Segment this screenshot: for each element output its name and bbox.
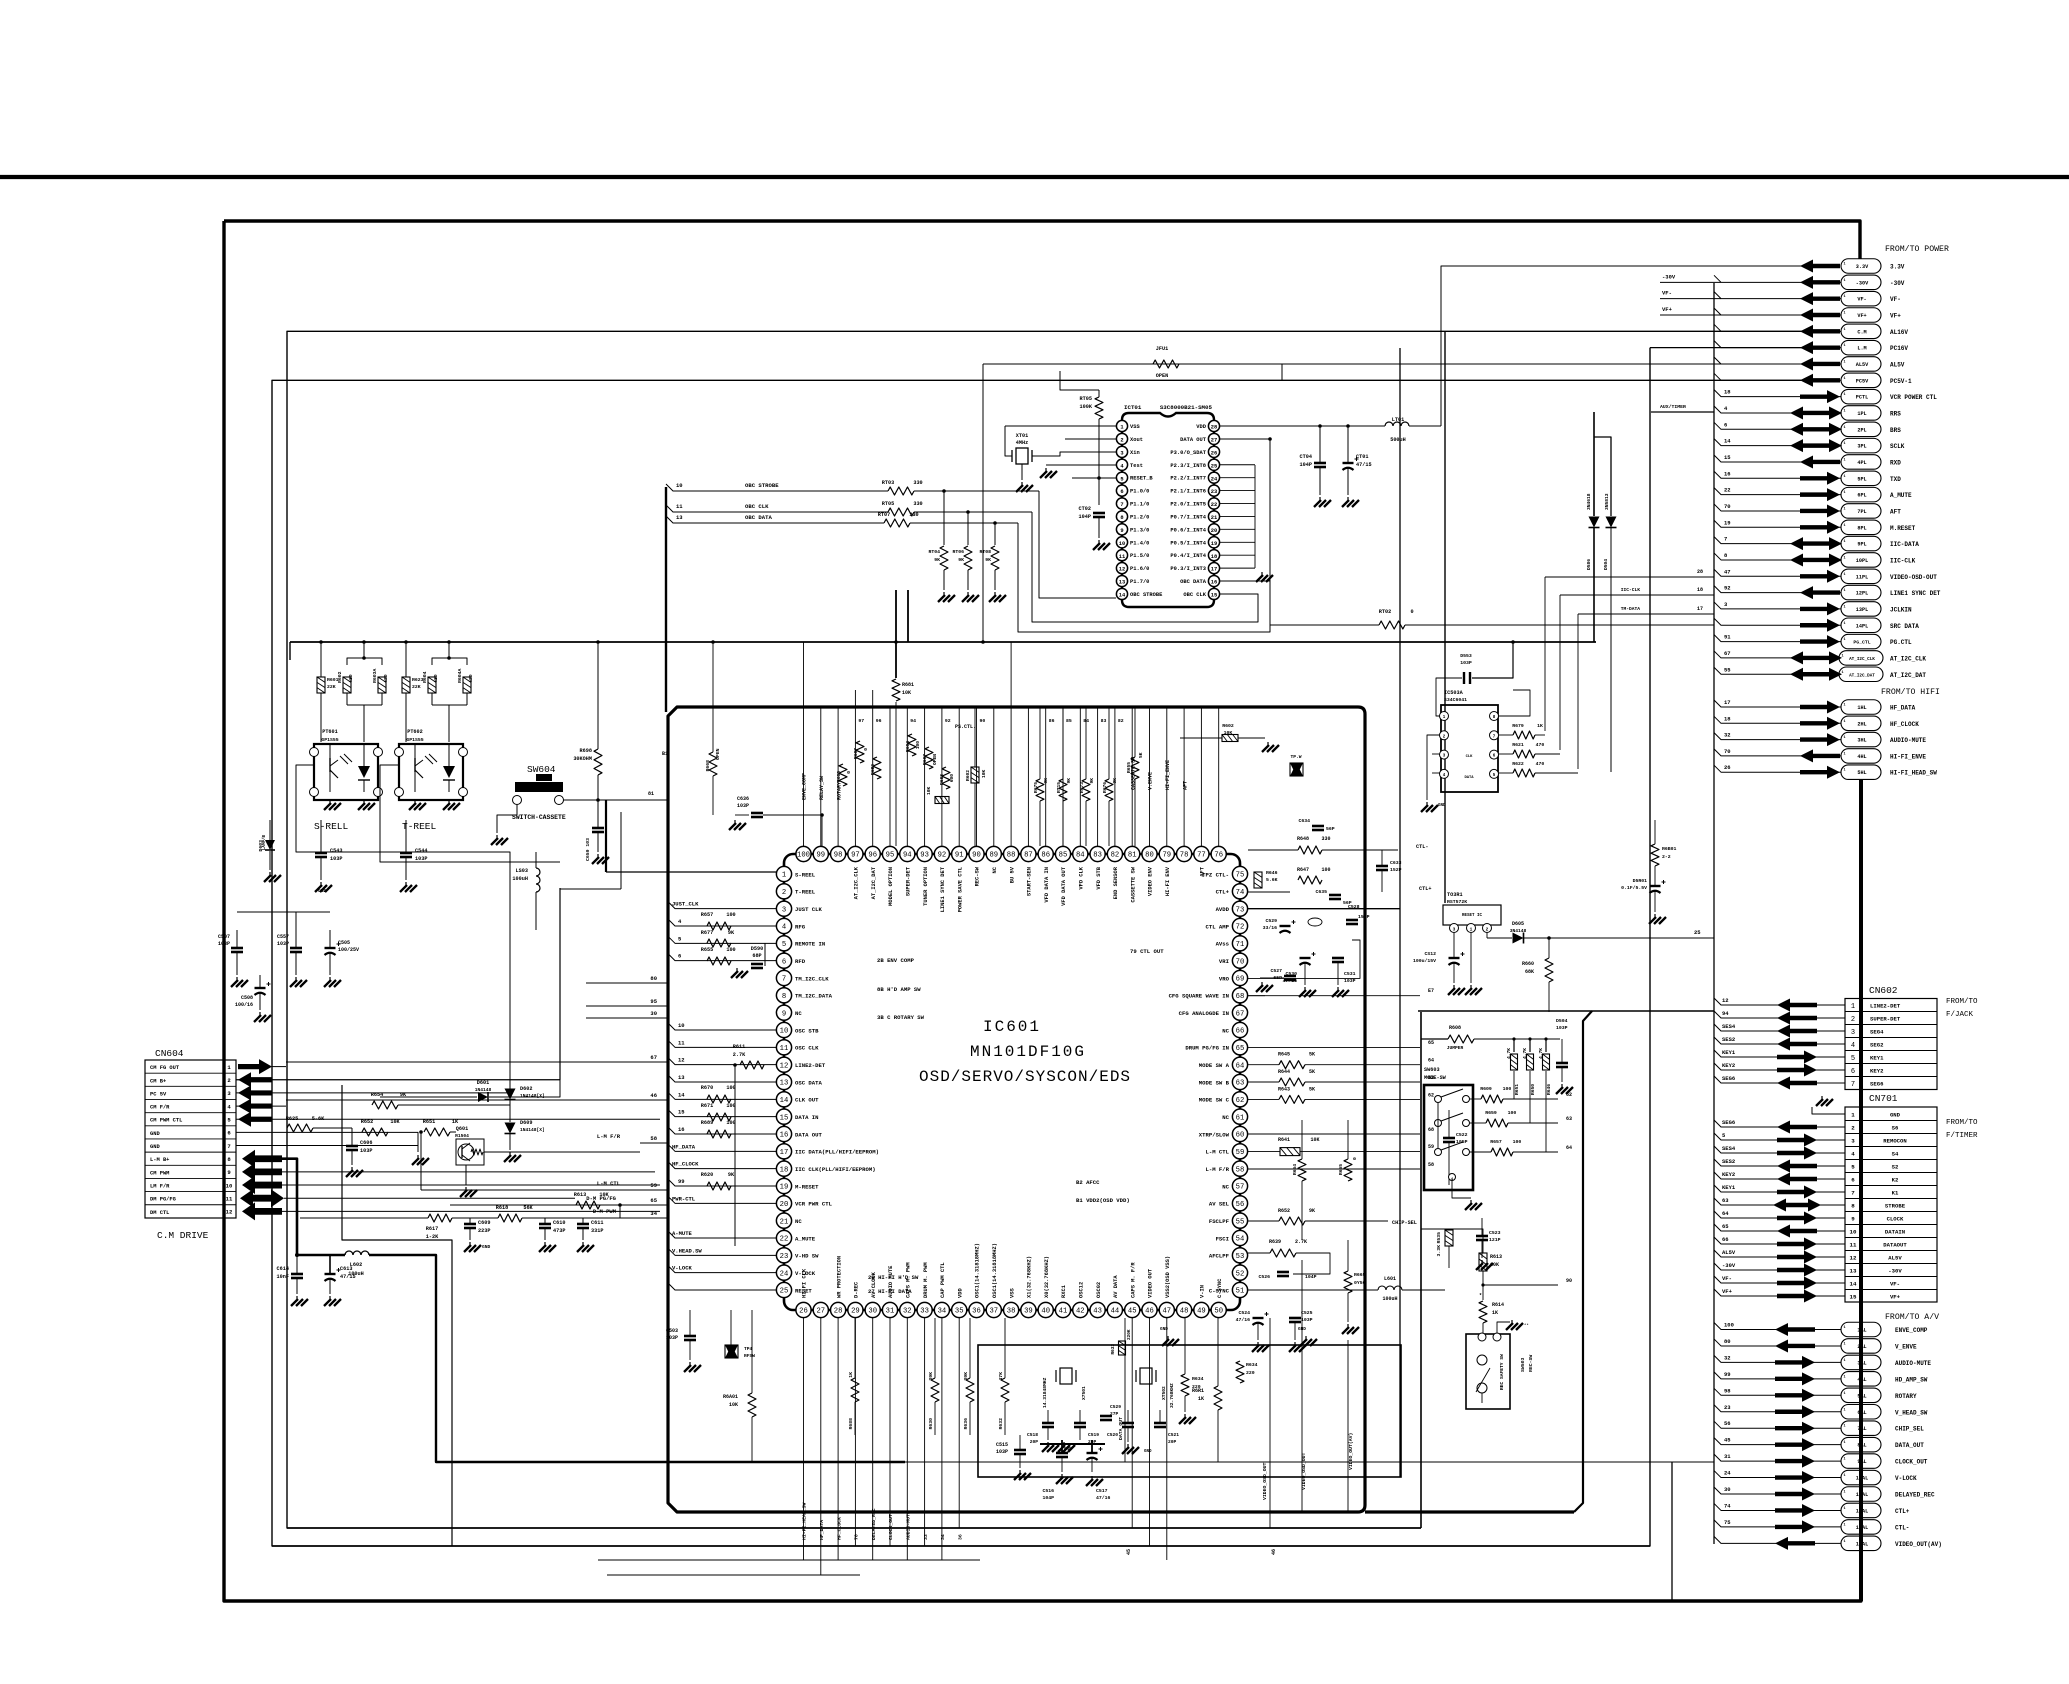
svg-text:RRS: RRS (1890, 410, 1901, 417)
svg-text:39K: 39K (928, 1372, 934, 1381)
mode sw row resistors (1481, 1095, 1503, 1103)
svg-text:P0.5/I_INT4: P0.5/I_INT4 (1170, 540, 1206, 546)
svg-text:R657: R657 (1490, 1139, 1502, 1145)
svg-text:2: 2 (1851, 1125, 1855, 1132)
CN602 pin 2 SUPER-DET (1845, 1011, 1937, 1013)
svg-text:DATA OUT: DATA OUT (1180, 437, 1207, 443)
svg-text:-30V: -30V (1856, 280, 1869, 286)
svg-text:65: 65 (650, 1197, 657, 1204)
svg-text:KEY2: KEY2 (1722, 1171, 1735, 1178)
svg-text:26: 26 (1211, 450, 1217, 456)
DATA OUT wire (1220, 438, 1270, 440)
svg-text:80: 80 (650, 975, 657, 982)
svg-text:75: 75 (1724, 1519, 1731, 1526)
L-M F/R wire (1248, 1168, 1420, 1170)
svg-text:LINE1 SYNC DET: LINE1 SYNC DET (940, 866, 946, 912)
svg-text:B2 AFCC: B2 AFCC (1076, 1179, 1100, 1186)
svg-text:68K: 68K (1525, 969, 1534, 975)
connector pin 14PL / SRC DATA (1841, 618, 1881, 633)
CN701 pin 3 REMOCON (1845, 1133, 1937, 1135)
svg-text:5AL: 5AL (1857, 1393, 1866, 1399)
connector pin 7AL / CHIP_SEL (1841, 1421, 1881, 1436)
svg-text:D-REC: D-REC (854, 1281, 860, 1298)
resistor R698 30KOHM (594, 749, 602, 775)
svg-text:90: 90 (1566, 1278, 1572, 1284)
svg-text:FROM/TO: FROM/TO (1946, 998, 1978, 1006)
connector pin 10PL / IIC-CLK (1841, 553, 1881, 568)
CN701 pin 9 CLOCK (1845, 1211, 1937, 1213)
svg-text:18: 18 (1724, 715, 1731, 722)
svg-text:10K: 10K (1490, 1262, 1499, 1268)
svg-text:R608: R608 (1449, 1025, 1461, 1031)
svg-text:84: 84 (1076, 852, 1085, 860)
svg-text:VSS: VSS (1009, 1288, 1015, 1298)
svg-text:33/16: 33/16 (1263, 925, 1278, 931)
svg-text:DATAIN: DATAIN (1885, 1229, 1905, 1236)
svg-text:9PL: 9PL (1857, 542, 1866, 548)
svg-text:CTL+: CTL+ (1216, 889, 1230, 896)
svg-text:85: 85 (1066, 718, 1072, 724)
connector pin 6AL / V_HEAD_SW (1841, 1405, 1881, 1420)
svg-text:20P: 20P (1168, 1439, 1177, 1445)
svg-text:61: 61 (1236, 1114, 1245, 1122)
svg-text:TPZ CTL-: TPZ CTL- (1202, 871, 1229, 878)
svg-text:GND: GND (1298, 1327, 1306, 1332)
svg-text:103P: 103P (1344, 978, 1356, 984)
svg-text:12AL: 12AL (1856, 1508, 1868, 1514)
svg-text:*: * (1479, 1293, 1482, 1299)
svg-text:FSCLPF: FSCLPF (1209, 1218, 1230, 1225)
VIDEO_OSD_OUT vertical (1269, 1318, 1271, 1528)
svg-text:C633: C633 (1390, 860, 1402, 866)
svg-text:4: 4 (782, 924, 786, 932)
svg-text:97: 97 (858, 718, 864, 724)
svg-text:**: ** (1524, 1323, 1529, 1328)
R634 220 second (1236, 1361, 1244, 1383)
svg-text:60: 60 (1236, 1132, 1245, 1140)
svg-text:DATA: DATA (1464, 776, 1474, 780)
svg-text:P0.6/I_INT4: P0.6/I_INT4 (1170, 527, 1206, 533)
svg-text:OBC DATA: OBC DATA (1180, 579, 1207, 585)
svg-text:46: 46 (1271, 1549, 1277, 1555)
svg-text:OSC1(14.31818MHZ): OSC1(14.31818MHZ) (975, 1243, 981, 1298)
connector pin 5PL / TXD (1841, 471, 1881, 486)
svg-text:19: 19 (1211, 541, 1217, 547)
svg-text:MODE SW B: MODE SW B (1199, 1079, 1230, 1086)
svg-text:46: 46 (650, 1092, 657, 1099)
svg-text:9K: 9K (985, 557, 991, 563)
svg-text:25: 25 (780, 1288, 789, 1296)
svg-text:14: 14 (1724, 438, 1731, 445)
svg-text:D504: D504 (1603, 559, 1609, 570)
svg-text:36: 36 (972, 1308, 981, 1316)
svg-text:S-RELL: S-RELL (314, 821, 349, 832)
svg-text:32: 32 (903, 1308, 912, 1316)
svg-text:RT03: RT03 (882, 480, 894, 486)
svg-text:C517: C517 (1096, 1488, 1108, 1494)
XTRP wire (1248, 1133, 1420, 1135)
svg-text:99: 99 (1724, 1371, 1731, 1378)
svg-text:C521: C521 (1168, 1432, 1179, 1438)
svg-text:470: 470 (1536, 742, 1545, 748)
CN701 pin 8 STROBE (1845, 1198, 1937, 1200)
svg-text:12: 12 (780, 1062, 789, 1070)
svg-text:68: 68 (1428, 1127, 1434, 1133)
svg-text:473P: 473P (553, 1228, 565, 1234)
connector pin 13PL / JCLKIN (1841, 602, 1881, 617)
svg-text:70: 70 (1236, 958, 1245, 966)
svg-text:XT01: XT01 (1016, 433, 1028, 439)
svg-text:16: 16 (1211, 580, 1217, 586)
svg-text:R651: R651 (1514, 1084, 1520, 1095)
svg-text:PCTL: PCTL (1856, 395, 1868, 401)
svg-text:CM FG OUT: CM FG OUT (150, 1065, 180, 1071)
svg-text:67: 67 (1724, 650, 1731, 657)
svg-text:VIDEO ENV: VIDEO ENV (1148, 866, 1154, 896)
svg-text:R689: R689 (701, 1120, 713, 1126)
svg-text:3HL: 3HL (1857, 738, 1866, 744)
svg-text:C524: C524 (1238, 1310, 1250, 1316)
connector pin 11PL / VIDEO-OSD-OUT (1841, 569, 1881, 584)
svg-text:VIDEO-OSD-OUT: VIDEO-OSD-OUT (1890, 574, 1937, 581)
svg-text:1PL: 1PL (1857, 411, 1866, 417)
connector pin 7PL / AFT (1841, 504, 1881, 519)
svg-text:26: 26 (1724, 764, 1731, 771)
svg-text:R688: R688 (939, 774, 945, 785)
svg-text:PG.CTL: PG.CTL (1890, 639, 1912, 646)
svg-text:64: 64 (1236, 1062, 1245, 1070)
svg-text:RT05: RT05 (882, 501, 894, 507)
title block top rule (0, 175, 2069, 179)
svg-text:RELAY_SW: RELAY_SW (819, 776, 825, 800)
svg-text:P2.1/I_INT6: P2.1/I_INT6 (1170, 489, 1206, 495)
svg-text:5PL: 5PL (1857, 476, 1866, 482)
CN701 pin 14 VF- (1845, 1276, 1937, 1278)
svg-text:GND: GND (150, 1131, 160, 1137)
svg-text:10K: 10K (1310, 1137, 1319, 1143)
svg-text:15: 15 (780, 1114, 789, 1122)
svg-text:R604: R604 (422, 671, 428, 683)
svg-text:11AL: 11AL (1856, 1492, 1868, 1498)
svg-text:D504: D504 (1556, 1018, 1568, 1024)
svg-text:TO3R1: TO3R1 (1447, 892, 1463, 898)
svg-text:66: 66 (1236, 1028, 1245, 1036)
svg-text:1: 1 (1843, 1375, 1845, 1379)
capacitor C636 103P (751, 812, 763, 815)
svg-text:12PL: 12PL (1856, 591, 1868, 597)
svg-text:100/16: 100/16 (235, 1002, 253, 1008)
svg-text:S4: S4 (1892, 1151, 1899, 1158)
svg-text:21: 21 (1211, 515, 1217, 521)
svg-text:53: 53 (1236, 1253, 1245, 1261)
inductor L602 100uH (345, 1251, 369, 1255)
svg-text:2-2: 2-2 (1662, 854, 1671, 860)
svg-text:8AL: 8AL (1857, 1443, 1866, 1449)
svg-text:VF-: VF- (1722, 1275, 1732, 1282)
svg-text:21: 21 (780, 1218, 789, 1226)
svg-text:OSC02: OSC02 (1096, 1282, 1102, 1298)
CN604 pin 9 CM PWM (145, 1164, 236, 1166)
connector pin AT_I2C_DAT / AT_I2C_DAT (1839, 667, 1883, 682)
svg-text:VDD: VDD (957, 1288, 963, 1298)
svg-text:470: 470 (468, 674, 474, 683)
svg-text:1: 1 (1843, 704, 1845, 708)
svg-text:33: 33 (923, 1534, 929, 1540)
svg-text:AFT: AFT (1890, 508, 1901, 515)
svg-text:AL5V: AL5V (1856, 362, 1869, 368)
svg-text:CM PWM: CM PWM (150, 1170, 169, 1176)
CN701 pin 6 K2 (1845, 1172, 1937, 1174)
svg-text:NC: NC (1222, 1027, 1229, 1034)
svg-text:P1.7/0: P1.7/0 (1130, 579, 1149, 585)
resistor R634 220 (1181, 1374, 1189, 1396)
IC503A left pins gnd (1427, 735, 1440, 800)
svg-text:28: 28 (1211, 425, 1217, 431)
svg-text:9: 9 (782, 1010, 786, 1018)
svg-text:5: 5 (1120, 476, 1123, 482)
svg-text:220: 220 (1246, 1370, 1255, 1376)
svg-text:47/16: 47/16 (1096, 1495, 1111, 1501)
svg-text:18: 18 (1697, 587, 1703, 593)
svg-text:5: 5 (1851, 1055, 1855, 1063)
svg-text:13: 13 (780, 1080, 789, 1088)
svg-text:64: 64 (1428, 1058, 1434, 1064)
svg-text:2: 2 (782, 889, 786, 897)
svg-text:GND: GND (150, 1144, 160, 1150)
svg-text:K1: K1 (1892, 1190, 1899, 1197)
svg-text:18: 18 (780, 1166, 789, 1174)
svg-text:OSC STB: OSC STB (795, 1027, 819, 1034)
svg-text:7: 7 (1851, 1190, 1855, 1197)
svg-text:9K: 9K (934, 557, 940, 563)
connector pin 4HL / HI-FI_ENVE (1841, 749, 1881, 764)
svg-text:MN101DF10G: MN101DF10G (970, 1043, 1086, 1061)
S-REEL R602/R603A (347, 658, 382, 665)
connector pin C.M / AL16V (1841, 324, 1881, 339)
svg-text:16: 16 (1724, 470, 1731, 477)
svg-text:C525: C525 (1301, 1310, 1313, 1316)
svg-text:5K: 5K (1138, 752, 1144, 758)
svg-text:59: 59 (1428, 1144, 1434, 1150)
svg-text:IIC CLK(PLL/HIFI/EEPROM): IIC CLK(PLL/HIFI/EEPROM) (795, 1166, 876, 1173)
svg-text:29: 29 (851, 1308, 860, 1316)
svg-text:1: 1 (1843, 360, 1845, 364)
svg-text:1: 1 (1843, 491, 1845, 495)
resistor R641 10K (1280, 1148, 1300, 1156)
svg-text:1: 1 (1843, 1441, 1845, 1445)
svg-text:103P: 103P (1556, 1025, 1568, 1031)
svg-text:CTL AMP: CTL AMP (1206, 923, 1230, 930)
svg-text:2B HI-FI H'D SW: 2B HI-FI H'D SW (868, 1274, 919, 1281)
svg-text:2: 2 (1120, 438, 1123, 444)
CTL- net parts (1298, 846, 1322, 854)
svg-text:9AL: 9AL (1857, 1459, 1866, 1465)
svg-text:1-2K: 1-2K (426, 1234, 439, 1240)
svg-text:1: 1 (1843, 540, 1845, 544)
svg-text:SES2: SES2 (1722, 1036, 1735, 1043)
svg-text:47/16: 47/16 (1236, 1317, 1251, 1323)
crystal XT502 32.768KHz cluster (1140, 1368, 1152, 1384)
svg-text:10K: 10K (926, 786, 932, 795)
connector pin 5HL / HI-FI_HEAD_SW (1841, 765, 1881, 780)
svg-text:T-REEL: T-REEL (402, 821, 437, 832)
OBC DATA wire (666, 516, 884, 523)
junction vertical from pin12 (734, 1065, 736, 1246)
svg-text:GND: GND (1438, 804, 1446, 808)
svg-text:1N4148: 1N4148 (475, 1087, 492, 1093)
svg-text:8PL: 8PL (1857, 525, 1866, 531)
svg-text:AV DATA: AV DATA (1113, 1275, 1119, 1298)
connector pin 3.3V / 3.3V (1841, 259, 1881, 274)
svg-text:80: 80 (1724, 1338, 1731, 1345)
svg-text:11: 11 (1850, 1242, 1857, 1249)
svg-text:5-6K: 5-6K (312, 1116, 325, 1122)
CN604 pin 8 L-M B+ (145, 1151, 236, 1153)
svg-text:3: 3 (1851, 1138, 1855, 1145)
svg-text:P0.4/I_INT4: P0.4/I_INT4 (1170, 553, 1206, 559)
resistor R671 100 (707, 1113, 731, 1121)
svg-text:74: 74 (1724, 1502, 1731, 1509)
svg-text:AFT: AFT (1182, 781, 1188, 790)
svg-text:CM B+: CM B+ (150, 1078, 166, 1084)
svg-text:R625: R625 (286, 1116, 298, 1122)
reel sense taps (296, 765, 510, 1004)
svg-text:55: 55 (1236, 1218, 1245, 1226)
svg-text:SES2: SES2 (1722, 1158, 1735, 1165)
svg-text:TP.W: TP.W (1290, 754, 1301, 760)
svg-text:100: 100 (1513, 1139, 1522, 1145)
svg-text:VDD: VDD (1196, 424, 1206, 430)
svg-text:HF_DATA: HF_DATA (672, 1143, 696, 1150)
svg-text:78: 78 (1180, 852, 1189, 860)
svg-text:V-LOCK: V-LOCK (672, 1265, 693, 1272)
svg-text:10K: 10K (902, 690, 911, 696)
svg-text:330: 330 (913, 480, 922, 486)
svg-text:10K: 10K (599, 1192, 609, 1198)
svg-text:32.768KHZ: 32.768KHZ (1169, 1383, 1175, 1408)
svg-text:R648: R648 (1297, 836, 1309, 842)
svg-text:1: 1 (1843, 1326, 1845, 1330)
svg-text:1: 1 (1843, 1342, 1845, 1346)
svg-text:C529: C529 (1110, 1404, 1121, 1410)
svg-text:11: 11 (678, 1039, 685, 1046)
svg-text:SEG6: SEG6 (1722, 1119, 1735, 1126)
svg-text:RT15: RT15 (1056, 782, 1062, 793)
svg-text:S-REEL: S-REEL (795, 871, 816, 878)
capacitor C515 103P (1014, 1449, 1026, 1452)
svg-text:KEY1: KEY1 (1870, 1055, 1884, 1062)
svg-text:LAMP/B: LAMP/B (262, 835, 267, 851)
svg-text:1: 1 (1843, 556, 1845, 560)
svg-text:103P: 103P (218, 941, 230, 947)
svg-text:68: 68 (1236, 993, 1245, 1001)
svg-text:ENVE_COMP: ENVE_COMP (802, 773, 808, 800)
svg-text:R609: R609 (1480, 1086, 1492, 1092)
svg-text:100K: 100K (1080, 404, 1093, 410)
svg-text:11: 11 (676, 503, 683, 510)
resistor R654 9K (372, 1101, 398, 1109)
svg-text:RFD: RFD (795, 958, 806, 965)
svg-text:0: 0 (1410, 609, 1413, 615)
svg-text:100: 100 (1503, 1086, 1512, 1092)
svg-text:STROBE: STROBE (1885, 1203, 1906, 1210)
svg-text:R688: R688 (848, 1418, 854, 1430)
CN701 pin 13 -30V (1845, 1263, 1937, 1265)
svg-text:22K: 22K (327, 684, 336, 690)
svg-text:REMOTE IN: REMOTE IN (795, 941, 825, 948)
svg-text:C659 103: C659 103 (585, 838, 591, 861)
svg-text:RT02: RT02 (1379, 609, 1391, 615)
svg-text:44: 44 (1111, 1308, 1120, 1316)
connector pin 14AL / VIDEO_OUT(AV) (1841, 1536, 1881, 1551)
svg-text:63: 63 (1236, 1080, 1245, 1088)
svg-text:PC 5V: PC 5V (150, 1091, 167, 1097)
svg-text:A-MUTE: A-MUTE (672, 1230, 693, 1237)
svg-text:8B H'D AMP SW: 8B H'D AMP SW (877, 986, 921, 993)
svg-text:SEG6: SEG6 (1722, 1075, 1735, 1082)
svg-text:30: 30 (650, 1010, 657, 1017)
svg-text:22: 22 (1724, 487, 1731, 494)
svg-text:FROM/TO A/V: FROM/TO A/V (1885, 1312, 1939, 1322)
svg-text:JCLKIN: JCLKIN (1890, 606, 1912, 613)
svg-text:Xout: Xout (1130, 437, 1143, 443)
svg-text:470: 470 (1536, 761, 1545, 767)
svg-text:RFSW: RFSW (744, 1353, 755, 1359)
svg-text:7: 7 (1724, 536, 1727, 543)
svg-text:AT_I2C_DAT: AT_I2C_DAT (1849, 673, 1875, 678)
connector pin 3PL / SCLK (1841, 438, 1881, 453)
svg-text:NC: NC (992, 866, 998, 873)
svg-text:65: 65 (1428, 1040, 1434, 1046)
capacitor CT04 104P (1314, 462, 1326, 465)
svg-text:P2.3/I_INT8: P2.3/I_INT8 (1170, 463, 1206, 469)
svg-text:5HL: 5HL (1857, 770, 1866, 776)
labels on -30V VF- VF+ feed wires (1660, 281, 1721, 283)
svg-text:1K: 1K (1492, 1310, 1498, 1316)
svg-text:5K: 5K (1309, 1069, 1315, 1075)
svg-text:24: 24 (1724, 1470, 1731, 1477)
svg-text:R688: R688 (836, 771, 842, 782)
IC U601 MN101DF10G outline (784, 854, 1240, 1310)
svg-text:85: 85 (1059, 852, 1068, 860)
svg-text:IIC-CLK: IIC-CLK (1621, 587, 1641, 593)
svg-text:IIC-DATA: IIC-DATA (1890, 541, 1919, 548)
connector pin PG_CTL / PG.CTL (1841, 634, 1881, 649)
connector pin VF- / VF- (1841, 291, 1881, 306)
svg-text:DATA_OUT: DATA_OUT (1118, 1417, 1124, 1440)
svg-text:R621: R621 (1512, 742, 1524, 748)
svg-text:C516: C516 (1042, 1488, 1054, 1494)
svg-text:CTL+: CTL+ (1419, 886, 1431, 892)
CTL AMP parts (1280, 925, 1291, 927)
svg-text:6: 6 (678, 953, 681, 960)
svg-text:C507: C507 (218, 934, 230, 940)
svg-text:69: 69 (1236, 976, 1245, 984)
resistor R6R1 1K (1214, 1386, 1222, 1410)
outer border / power bus loop (224, 221, 1860, 259)
svg-text:LINE1 SYNC DET: LINE1 SYNC DET (1890, 590, 1941, 597)
IC601 thick shield box (668, 707, 1356, 1512)
svg-text:33: 33 (920, 1308, 929, 1316)
resistor R602 box 10K (971, 767, 979, 783)
OBC CLK wire (666, 505, 888, 512)
OBC STROBE wire (666, 484, 888, 491)
svg-text:81: 81 (1128, 852, 1137, 860)
svg-text:D601: D601 (477, 1080, 489, 1086)
resistor R602 10K top right (1222, 735, 1238, 742)
CN604 pin 3 PC 5V (145, 1085, 236, 1087)
svg-text:V-IN: V-IN (1200, 1285, 1206, 1298)
